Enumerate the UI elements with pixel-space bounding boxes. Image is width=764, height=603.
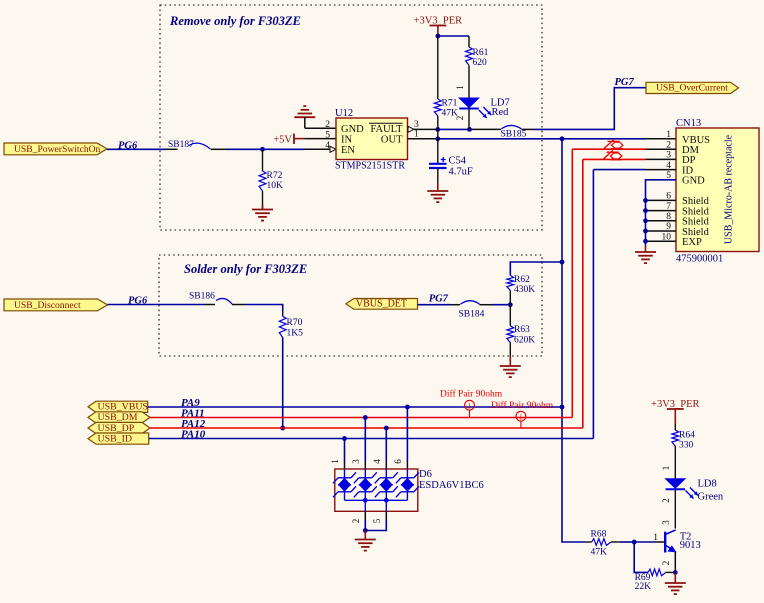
svg-text:10K: 10K xyxy=(267,181,284,191)
net label PG6 disconnect xyxy=(128,296,148,307)
wire PG6 to SB187 xyxy=(107,148,178,150)
diff pair twist marker DP xyxy=(603,150,622,159)
wire T2 emitter xyxy=(661,552,675,573)
ground below CN13 xyxy=(635,246,656,264)
capacitor C54 4.7uF xyxy=(429,129,473,177)
LED LD8 Green xyxy=(666,479,724,503)
svg-text:USB_VBUS: USB_VBUS xyxy=(98,402,149,413)
wire R61 to LD7 pin 1 xyxy=(455,65,469,98)
resistor R62 430K xyxy=(507,262,562,305)
node VBUS/PA9 xyxy=(560,405,565,410)
svg-text:47K: 47K xyxy=(591,548,608,558)
svg-text:EN: EN xyxy=(341,145,355,156)
wire DP top segment xyxy=(583,158,646,160)
node OUT/C54 xyxy=(435,136,440,141)
pin 2 CN13 DM xyxy=(646,140,700,156)
wire USB_DM PA11 xyxy=(150,417,572,419)
note box Solder only for F303ZE xyxy=(159,255,542,356)
node FAULT/R71 xyxy=(435,127,440,132)
node D6 pin6/PA9 xyxy=(405,405,410,410)
power +3V3_PER top xyxy=(414,15,463,36)
svg-text:1: 1 xyxy=(666,130,671,140)
node shield junction xyxy=(643,208,648,213)
port USB_ID xyxy=(88,433,149,444)
wire D6 pin 6 from USB_VBUS xyxy=(393,407,407,469)
pin 4 CN13 ID xyxy=(646,161,694,177)
svg-text:Solder only for F303ZE: Solder only for F303ZE xyxy=(184,262,307,276)
svg-text:U12: U12 xyxy=(335,108,353,119)
pin 5 CN13 GND xyxy=(646,171,706,187)
svg-text:+5V: +5V xyxy=(273,134,292,145)
ground below D6 xyxy=(355,531,376,551)
svg-text:SB184: SB184 xyxy=(459,310,485,320)
wire SB185 to PG7 riser xyxy=(521,88,646,130)
ground below R63 xyxy=(500,356,521,377)
diff pair twist marker DM xyxy=(604,140,623,149)
port USB_OverCurrent xyxy=(646,82,739,93)
svg-text:22K: 22K xyxy=(635,582,652,592)
svg-text:C54: C54 xyxy=(449,156,467,167)
wire U12 pin 2 xyxy=(305,120,336,130)
note box Remove only for F303ZE xyxy=(160,5,542,230)
node R70/USB_DP xyxy=(280,426,285,431)
svg-text:USB_OverCurrent: USB_OverCurrent xyxy=(656,83,728,94)
node base/R69 xyxy=(632,540,637,545)
svg-text:R68: R68 xyxy=(591,530,607,540)
svg-text:1: 1 xyxy=(661,466,671,471)
svg-text:GND: GND xyxy=(682,176,705,187)
wire U12 OUT to CN13 VBUS xyxy=(408,138,677,140)
solder bridge SB187 xyxy=(168,140,210,150)
svg-text:R61: R61 xyxy=(473,48,489,58)
svg-text:2: 2 xyxy=(325,120,330,130)
transistor T2 9013 xyxy=(653,530,700,553)
wire CN13 GND/shield bus xyxy=(646,180,677,246)
node emitter/R69/ground xyxy=(673,570,678,575)
pin 1 CN13 VBUS xyxy=(666,130,710,146)
svg-text:1: 1 xyxy=(455,85,465,90)
port VBUS_DET xyxy=(346,298,418,309)
port USB_DP xyxy=(88,422,150,433)
node D6 pin4/PA12 xyxy=(384,426,389,431)
svg-text:FAULT: FAULT xyxy=(370,124,403,135)
diff pair directive DM xyxy=(440,389,503,418)
node shield junction xyxy=(643,229,648,234)
wire ID riser xyxy=(592,170,594,439)
svg-text:ESDA6V1BC6: ESDA6V1BC6 xyxy=(419,480,484,491)
svg-text:475900001: 475900001 xyxy=(676,254,723,265)
wire U12 FAULT to SB185 xyxy=(414,128,501,130)
wire 3V3 to R61 xyxy=(438,35,469,37)
svg-text:PG7: PG7 xyxy=(615,77,635,88)
solder bridge SB185 xyxy=(501,125,527,139)
connector CN13 USB Micro-AB xyxy=(676,118,759,265)
wire R64 to LD8 pin 1 xyxy=(661,446,675,479)
ground below R72 xyxy=(252,205,273,221)
svg-text:Green: Green xyxy=(698,492,724,503)
power +3V3_PER bottom xyxy=(651,399,700,424)
node D6 ground junction xyxy=(363,528,368,533)
svg-text:LD8: LD8 xyxy=(698,479,717,490)
wire SB186 to R70 xyxy=(232,305,283,312)
svg-text:USB_PowerSwitchOn: USB_PowerSwitchOn xyxy=(14,144,101,155)
svg-text:3: 3 xyxy=(351,459,361,464)
svg-text:R63: R63 xyxy=(514,325,530,335)
pin 1 label U12 OUT xyxy=(414,130,419,140)
net label PG7 OverCurrent xyxy=(615,77,635,88)
pin 4 marker U12 EN xyxy=(325,141,336,152)
port USB_DM xyxy=(88,412,150,423)
resistor R69 22K xyxy=(634,542,675,592)
wire VBUS riser xyxy=(562,139,585,542)
resistor R63 620K xyxy=(507,305,535,357)
node D6 pin3/PA11 xyxy=(363,415,368,420)
ground above U12 pin 2 xyxy=(294,106,315,128)
svg-text:R72: R72 xyxy=(267,171,283,181)
node shield junction xyxy=(643,218,648,223)
svg-text:PG7: PG7 xyxy=(429,294,449,305)
wire D6 pin 2 to ground xyxy=(351,511,365,530)
svg-text:1: 1 xyxy=(330,459,340,464)
pin 7 CN13 Shield xyxy=(646,202,710,218)
net label PA11 xyxy=(181,407,205,419)
solder bridge SB186 xyxy=(189,292,232,305)
svg-text:620: 620 xyxy=(473,58,488,68)
pin 10 CN13 EXP xyxy=(646,232,702,248)
op-amp U12 STMPS2151STR power switch xyxy=(335,108,408,172)
wire D6 pin 4 from USB_DP xyxy=(372,428,386,469)
svg-text:3: 3 xyxy=(414,120,419,130)
pin 9 CN13 Shield xyxy=(646,222,710,238)
svg-text:5: 5 xyxy=(372,518,382,523)
wire PG6 to SB186 xyxy=(108,304,216,306)
solder bridge SB184 xyxy=(459,301,485,320)
svg-text:GND: GND xyxy=(341,124,364,135)
port USB_VBUS xyxy=(88,401,148,412)
LED LD7 Red xyxy=(459,98,510,119)
svg-text:4.7uF: 4.7uF xyxy=(449,167,473,178)
wire DP riser xyxy=(582,159,584,428)
svg-text:USB_Disconnect: USB_Disconnect xyxy=(14,300,81,311)
svg-text:430K: 430K xyxy=(514,285,535,295)
port USB_Disconnect xyxy=(4,299,108,311)
node 3V3/R71/R61 xyxy=(436,34,441,39)
port USB_PowerSwitchOn xyxy=(4,143,107,155)
wire SB184 to R62/R63 xyxy=(480,304,511,306)
wire base T2 xyxy=(634,541,665,543)
svg-text:1K5: 1K5 xyxy=(287,329,304,339)
svg-text:2: 2 xyxy=(661,498,671,503)
net label PG6 xyxy=(118,140,138,151)
wire LD8 pin 2 to T2 collector xyxy=(661,490,675,529)
svg-text:SB186: SB186 xyxy=(189,292,215,302)
wire USB_DP PA12 xyxy=(150,427,583,429)
pin 8 CN13 Shield xyxy=(646,212,710,228)
svg-text:Remove only for F303ZE: Remove only for F303ZE xyxy=(169,14,301,28)
svg-text:4: 4 xyxy=(372,459,382,464)
diode array D6 ESDA6V1BC6 xyxy=(333,469,484,511)
node R72/EN junction xyxy=(260,147,265,152)
node OUT/VBUS riser xyxy=(560,136,565,141)
node VBUS/R62 xyxy=(560,260,565,265)
wire USB_ID PA10 xyxy=(149,438,594,440)
svg-text:3: 3 xyxy=(661,520,671,525)
svg-text:Diff Pair 90ohm: Diff Pair 90ohm xyxy=(491,400,554,411)
wire USB_VBUS PA9 xyxy=(148,406,562,408)
ground below C54 xyxy=(427,168,448,202)
node FAULT/LD7 xyxy=(467,127,472,132)
svg-text:6: 6 xyxy=(393,459,403,464)
wire DM riser xyxy=(571,149,573,417)
power +5V xyxy=(273,134,294,146)
svg-text:2: 2 xyxy=(661,561,671,566)
svg-text:EXP: EXP xyxy=(682,237,702,248)
net label PA9 xyxy=(181,397,200,409)
diff pair directive DP xyxy=(491,400,554,428)
svg-text:Red: Red xyxy=(492,107,510,118)
svg-text:D6: D6 xyxy=(419,469,432,480)
resistor R68 47K xyxy=(585,530,634,558)
wire DM top segment xyxy=(572,148,645,150)
net label PA10 xyxy=(181,428,206,440)
wire D6 pin 1 from USB_ID xyxy=(330,439,345,470)
node shield junction xyxy=(643,239,648,244)
wire D6 pin 5 to ground xyxy=(365,511,386,530)
svg-text:STMPS2151STR: STMPS2151STR xyxy=(335,161,405,172)
resistor R61 620 xyxy=(466,36,489,68)
resistor R72 10K xyxy=(259,149,283,208)
wire U12 pin 5 xyxy=(294,130,336,140)
svg-text:9013: 9013 xyxy=(680,540,701,551)
wire ID top segment xyxy=(593,169,645,171)
wire R70 to USB_DP xyxy=(282,338,284,429)
ground below T2 xyxy=(665,572,686,594)
wire LD7 pin 2 to FAULT xyxy=(455,109,469,129)
node shield junction xyxy=(643,198,648,203)
wire D6 pin 3 from USB_DM xyxy=(351,418,365,470)
svg-text:OUT: OUT xyxy=(381,134,403,145)
wire VBUS_DET to SB184 xyxy=(418,304,461,306)
svg-text:USB_ID: USB_ID xyxy=(98,433,133,444)
net label PG7 vbusdet xyxy=(429,294,449,305)
node R62/R63 xyxy=(508,302,513,307)
resistor R64 330 xyxy=(672,424,695,451)
node D6 pin1/PA10 xyxy=(342,436,347,441)
resistor R71 47K xyxy=(434,36,458,129)
wire SB187 to EN node xyxy=(211,148,263,150)
svg-text:USB_DP: USB_DP xyxy=(98,423,135,434)
wire junction to U12 EN xyxy=(263,148,331,150)
svg-text:Diff Pair 90ohm: Diff Pair 90ohm xyxy=(440,389,503,400)
svg-text:R64: R64 xyxy=(679,431,695,441)
svg-text:R71: R71 xyxy=(442,99,458,109)
resistor R70 1K5 xyxy=(279,311,303,339)
svg-text:5: 5 xyxy=(325,130,330,140)
pin 3 marker U12 FAULT xyxy=(408,120,419,133)
svg-text:VBUS_DET: VBUS_DET xyxy=(356,298,407,309)
svg-text:620K: 620K xyxy=(514,336,535,346)
svg-text:USB_DM: USB_DM xyxy=(98,412,138,423)
svg-text:R62: R62 xyxy=(514,275,530,285)
svg-text:CN13: CN13 xyxy=(676,118,701,129)
svg-text:2: 2 xyxy=(351,519,361,524)
svg-text:R70: R70 xyxy=(287,318,303,328)
svg-text:IN: IN xyxy=(341,134,352,145)
svg-text:2: 2 xyxy=(455,116,465,121)
pin 6 CN13 Shield xyxy=(646,192,710,208)
svg-text:330: 330 xyxy=(679,441,694,451)
pin 3 CN13 DP xyxy=(646,151,696,167)
net label PA12 xyxy=(181,418,206,430)
svg-text:USB_Micro-AB receptacle: USB_Micro-AB receptacle xyxy=(724,134,735,244)
